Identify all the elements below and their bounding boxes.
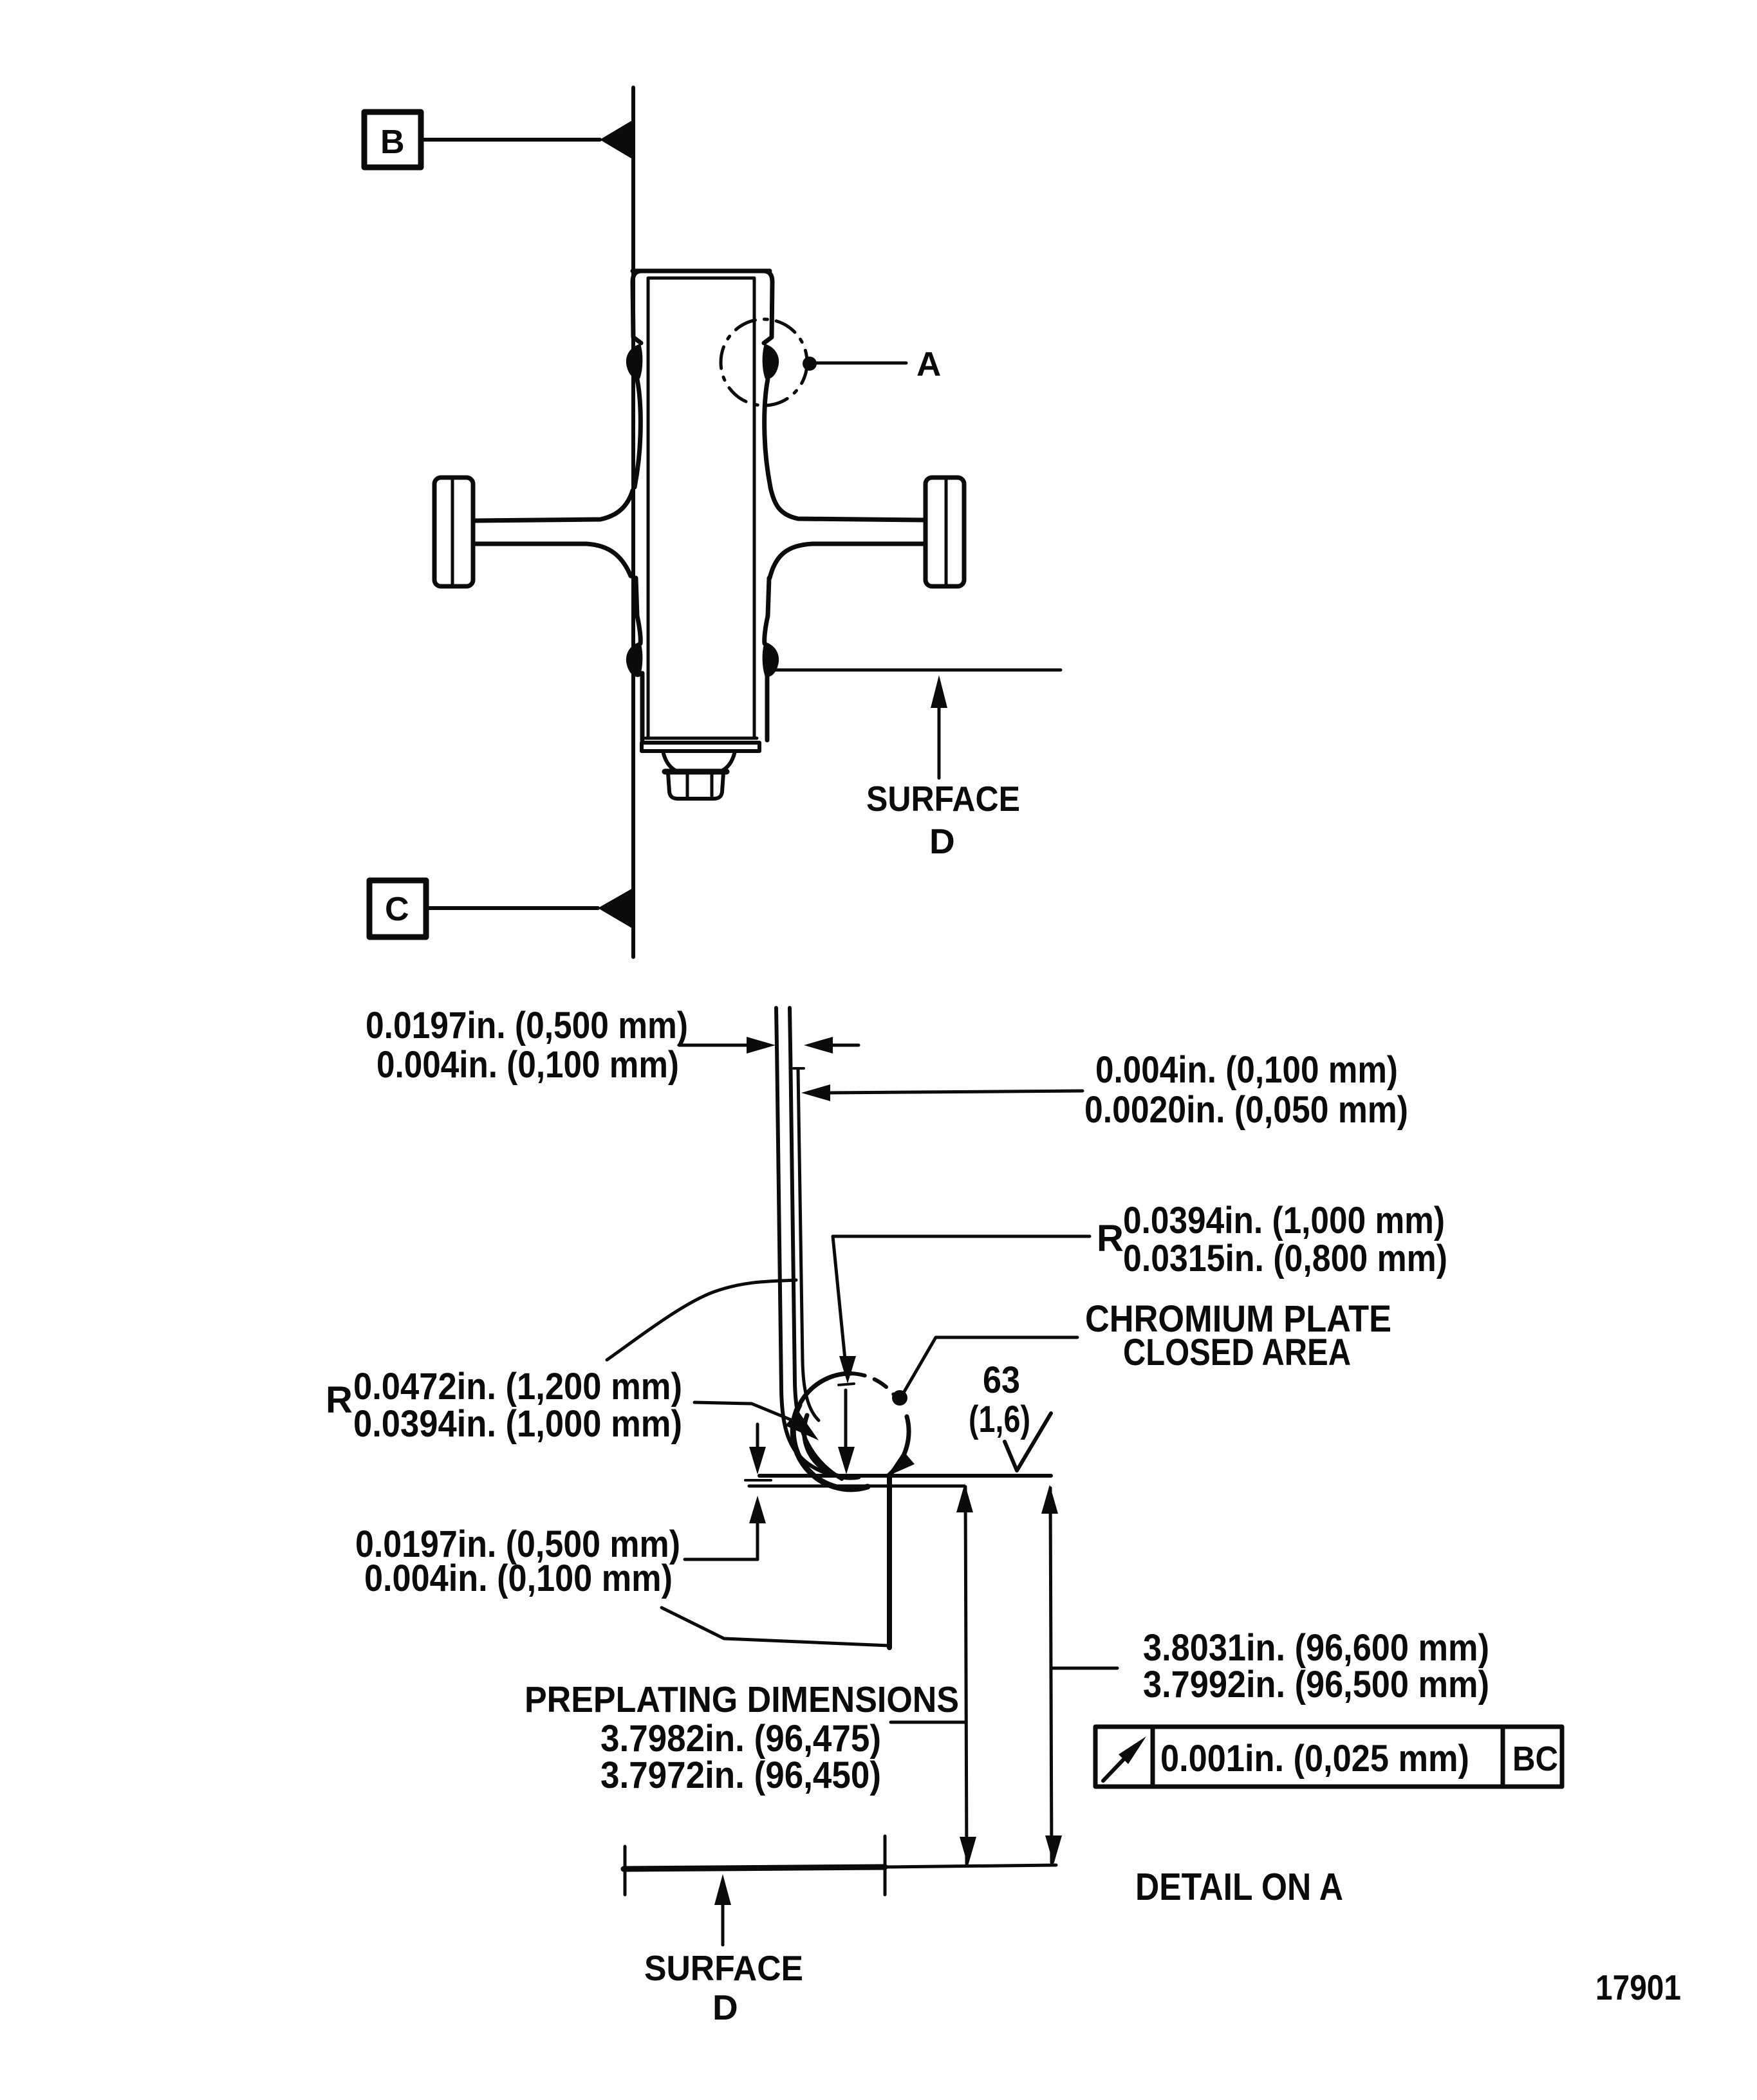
arm web top edge	[770, 487, 924, 520]
left thickness arrows	[756, 1424, 759, 1448]
svg-text:BC: BC	[1512, 1740, 1558, 1778]
part left arm	[434, 478, 633, 586]
svg-text:DETAIL ON A: DETAIL ON A	[1135, 1866, 1343, 1908]
zigzag leader to step	[662, 1608, 889, 1646]
part right arm	[770, 478, 964, 586]
svg-text:SURFACE: SURFACE	[644, 1948, 803, 1988]
part bottom cap	[646, 737, 757, 740]
svg-text:63: 63	[983, 1359, 1020, 1401]
svg-text:0.001in. (0,025 mm): 0.001in. (0,025 mm)	[1160, 1738, 1469, 1779]
leader A line	[817, 362, 906, 365]
chromium plate leader and dot	[904, 1337, 1077, 1393]
svg-text:0.0197in. (0,500 mm): 0.0197in. (0,500 mm)	[366, 1005, 688, 1046]
datum C box	[369, 880, 426, 937]
svg-text:0.0020in. (0,050 mm): 0.0020in. (0,050 mm)	[1084, 1089, 1408, 1131]
svg-text:D: D	[929, 821, 955, 861]
preplating dimension line	[965, 1487, 967, 1864]
svg-text:R: R	[326, 1379, 353, 1421]
left tick	[745, 1479, 771, 1482]
body outer edge lower neck	[765, 578, 769, 644]
svg-text:0.0315in. (0,800 mm): 0.0315in. (0,800 mm)	[1123, 1238, 1447, 1279]
body outer edge upper	[763, 271, 772, 343]
plating line interface	[790, 1008, 842, 1479]
plating line third	[798, 1070, 819, 1420]
svg-text:SURFACE: SURFACE	[866, 779, 1020, 819]
T-bar inner face line (left)	[451, 479, 454, 585]
surface D arrow (bottom)	[721, 1903, 725, 1945]
chrome interface line (detail)	[749, 1485, 963, 1488]
detail circle A	[721, 319, 807, 405]
svg-text:PREPLATING DIMENSIONS: PREPLATING DIMENSIONS	[525, 1679, 959, 1720]
svg-text:3.7992in. (96,500 mm): 3.7992in. (96,500 mm)	[1143, 1664, 1489, 1705]
arm web bottom edge	[770, 544, 924, 578]
datum C leader	[426, 906, 598, 910]
feature control frame	[1095, 1727, 1562, 1787]
svg-text:(1,6): (1,6)	[969, 1398, 1030, 1440]
svg-text:0.0472in. (1,200 mm): 0.0472in. (1,200 mm)	[353, 1366, 682, 1408]
arm web bottom edge (left)	[474, 544, 631, 576]
nut	[668, 773, 723, 799]
svg-text:3.7972in. (96,450): 3.7972in. (96,450)	[600, 1754, 881, 1796]
R 0.0472 leader	[694, 1402, 795, 1422]
datum B triangle	[600, 120, 633, 160]
plating line outer	[776, 1008, 832, 1475]
svg-text:C: C	[385, 891, 409, 928]
base metal step line	[887, 1477, 892, 1648]
top thickness dimension arrows	[679, 1044, 748, 1047]
groove seal lower	[763, 643, 778, 676]
bottom measuring bar	[624, 1867, 885, 1869]
inner wall line left	[647, 279, 650, 738]
R radius leader (upper)	[833, 1236, 1090, 1359]
svg-text:R: R	[1097, 1218, 1124, 1259]
bell shoulders	[663, 751, 735, 770]
datum C triangle	[598, 887, 634, 929]
datum B box	[364, 112, 421, 167]
part top cap lines	[633, 269, 770, 274]
svg-text:3.7982in. (96,475): 3.7982in. (96,475)	[600, 1718, 881, 1760]
corner radius arcs	[801, 1373, 851, 1402]
body edge below lower groove (right)	[765, 673, 770, 740]
surface D arrow (upper view)	[938, 702, 941, 778]
surface D line (upper view)	[776, 669, 1061, 672]
part body outer edge right	[763, 271, 778, 676]
svg-text:A: A	[916, 346, 941, 384]
arm web top edge (left)	[474, 490, 633, 521]
second thickness leader arrow	[829, 1091, 1083, 1093]
svg-text:0.0394in. (1,000 mm): 0.0394in. (1,000 mm)	[353, 1403, 682, 1445]
T-bar flange	[925, 478, 964, 586]
datum axis line B-C	[631, 88, 635, 957]
part body outer edge left (mirrored)	[627, 271, 642, 676]
svg-text:B: B	[380, 124, 405, 161]
svg-text:0.0394in. (1,000 mm): 0.0394in. (1,000 mm)	[1123, 1200, 1445, 1241]
svg-text:17901: 17901	[1595, 1967, 1681, 2007]
groove seal upper	[763, 345, 778, 378]
svg-text:0.004in. (0,100 mm): 0.004in. (0,100 mm)	[376, 1044, 679, 1086]
svg-text:CLOSED AREA: CLOSED AREA	[1123, 1332, 1351, 1373]
final dimension line	[1050, 1488, 1052, 1863]
wavy leader to plating lines	[607, 1280, 796, 1360]
inner wall line right	[753, 279, 756, 738]
body outer edge neck	[765, 379, 770, 487]
frame arrow symbol	[1103, 1752, 1131, 1781]
svg-text:D: D	[712, 1987, 738, 2027]
svg-text:3.8031in. (96,600 mm): 3.8031in. (96,600 mm)	[1143, 1627, 1489, 1669]
vertical radius pointer with tick	[839, 1384, 854, 1385]
T-bar flange (left)	[434, 478, 473, 586]
body edge below lower groove (left)	[640, 673, 645, 740]
surface D top line (detail)	[759, 1474, 1051, 1478]
svg-text:0.004in. (0,100 mm): 0.004in. (0,100 mm)	[364, 1557, 673, 1599]
leader A dot	[803, 357, 817, 371]
svg-text:0.004in. (0,100 mm): 0.004in. (0,100 mm)	[1095, 1049, 1398, 1091]
surface finish mark 63 (1,6)	[1005, 1413, 1051, 1471]
T-bar inner face line	[945, 479, 948, 585]
datum B leader	[421, 138, 600, 142]
